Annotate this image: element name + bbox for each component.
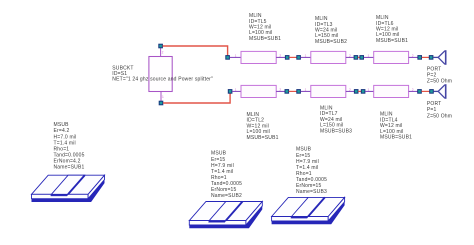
- port P1: [438, 84, 446, 99]
- node: TL5-TL3 b: [297, 56, 301, 60]
- svg-text:2: 2: [412, 54, 414, 58]
- microstrip line TL5: [230, 51, 286, 63]
- svg-text:1: 1: [305, 88, 307, 92]
- wire TL3 to TL6: [358, 56, 360, 58]
- svg-text:NET="1 24 ghz source and Power: NET="1 24 ghz source and Power splitter": [112, 77, 213, 83]
- microstrip line TL7: [301, 85, 355, 97]
- wire S1 pin2 to TL5: [163, 46, 228, 56]
- label TL2: [247, 112, 279, 141]
- label PORT P=1: [427, 101, 452, 119]
- svg-text:Name=SUB2: Name=SUB2: [211, 193, 242, 199]
- node: TL7-TL4 b: [361, 90, 365, 94]
- node: TL5-TL3 a: [285, 56, 289, 60]
- label MSUB SUB2: [211, 151, 242, 199]
- svg-text:Tand=0.0005: Tand=0.0005: [54, 152, 85, 158]
- svg-text:Tand=0.0005: Tand=0.0005: [211, 181, 242, 187]
- svg-text:Z=50 Ohm: Z=50 Ohm: [427, 113, 452, 119]
- node: TL2 input junction: [228, 90, 232, 94]
- svg-text:MSUB=SUB1: MSUB=SUB1: [380, 135, 412, 141]
- wire TL5 to TL3: [289, 56, 296, 58]
- substrate SUB1 (substrate 3D icon): [32, 175, 105, 202]
- svg-text:Tand=0.0005: Tand=0.0005: [296, 177, 327, 183]
- label TL3: [315, 16, 347, 45]
- label TL5: [249, 13, 281, 42]
- svg-text:2: 2: [279, 54, 281, 58]
- wire S1 pin1 to TL2: [163, 93, 230, 103]
- svg-text:Name=SUB1: Name=SUB1: [54, 165, 85, 171]
- svg-text:2: 2: [412, 88, 414, 92]
- svg-text:1: 1: [305, 54, 307, 58]
- microstrip line TL6: [364, 51, 418, 63]
- subcircuit S1 top pin stem: [160, 48, 162, 57]
- svg-text:MSUB=SUB1: MSUB=SUB1: [247, 135, 279, 141]
- svg-text:ErNom=4.2: ErNom=4.2: [54, 159, 81, 165]
- node: TL4-P1 a: [418, 90, 422, 94]
- svg-text:2: 2: [279, 88, 281, 92]
- svg-text:P=2: P=2: [427, 72, 437, 78]
- node: TL7-TL4 a: [354, 90, 358, 94]
- node: TL4-P1 b: [430, 90, 434, 94]
- svg-text:1: 1: [162, 95, 164, 99]
- microstrip line TL3: [301, 51, 354, 63]
- svg-text:MSUB=SUB3: MSUB=SUB3: [320, 128, 352, 134]
- svg-text:2: 2: [349, 88, 351, 92]
- node: TL3-TL6 a: [354, 56, 358, 60]
- svg-text:MSUB: MSUB: [211, 151, 227, 157]
- svg-text:MSUB=SUB1: MSUB=SUB1: [376, 38, 408, 44]
- node: S1 pin 1: [159, 101, 163, 105]
- label TL7: [320, 105, 352, 134]
- label MSUB SUB1: [54, 122, 85, 170]
- svg-text:1: 1: [235, 54, 237, 58]
- label TL6: [376, 15, 408, 44]
- svg-text:P=1: P=1: [427, 107, 437, 113]
- node: S1 pin 2: [159, 44, 163, 48]
- wire TL7 to TL4: [358, 90, 361, 92]
- substrate SUB2 (substrate 3D icon): [189, 202, 262, 229]
- node: TL6-P2 a: [418, 56, 422, 60]
- node: TL2-TL7 b: [297, 90, 301, 94]
- svg-text:PORT: PORT: [427, 66, 442, 72]
- svg-text:Name=SUB3: Name=SUB3: [296, 189, 327, 195]
- wire TL2 to TL7: [289, 90, 297, 92]
- node: TL5 input junction: [226, 56, 230, 60]
- svg-text:T=1.4 mil: T=1.4 mil: [211, 169, 233, 175]
- node: TL2-TL7 a: [285, 90, 289, 94]
- microstrip line TL2: [232, 85, 285, 97]
- svg-text:1: 1: [368, 54, 370, 58]
- svg-text:Z=50 Ohm: Z=50 Ohm: [427, 79, 452, 85]
- svg-text:PORT: PORT: [427, 101, 442, 107]
- substrate SUB3 (substrate 3D icon): [272, 197, 345, 224]
- subcircuit S1 box: [149, 57, 172, 92]
- svg-text:MSUB=SUB1: MSUB=SUB1: [249, 36, 281, 42]
- label MSUB SUB3: [296, 147, 327, 195]
- label TL4: [380, 112, 412, 141]
- svg-text:1: 1: [368, 88, 370, 92]
- node: TL6-P2 b: [429, 56, 433, 60]
- svg-text:2: 2: [349, 54, 351, 58]
- port P2: [438, 50, 446, 65]
- svg-text:MSUB=SUB2: MSUB=SUB2: [315, 39, 347, 45]
- svg-text:T=1.4 mil: T=1.4 mil: [296, 165, 318, 171]
- wire into port 1: [434, 90, 439, 92]
- svg-text:2: 2: [162, 51, 164, 55]
- wire TL4 to port 1: [422, 90, 430, 92]
- wire TL6 to port 2: [422, 56, 429, 58]
- label PORT P=2: [427, 66, 452, 84]
- label SUBCKT S1: [112, 66, 213, 83]
- microstrip line TL4: [365, 85, 417, 97]
- svg-text:Er=4.2: Er=4.2: [54, 128, 70, 134]
- wire into port 2: [433, 56, 438, 58]
- subcircuit S1 bottom pin stem: [160, 92, 162, 102]
- node: TL3-TL6 b: [360, 56, 364, 60]
- svg-text:MSUB: MSUB: [296, 147, 312, 153]
- svg-text:T=1.4 mil: T=1.4 mil: [54, 140, 76, 146]
- svg-text:1: 1: [235, 88, 237, 92]
